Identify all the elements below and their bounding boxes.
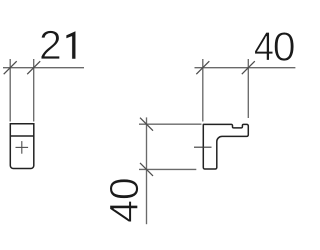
front view outline of hook plate [10, 124, 34, 169]
tick left [4, 61, 17, 74]
side view hook profile outline [203, 124, 248, 169]
svg-text:2: 2 [39, 22, 62, 68]
extension line left [9, 59, 11, 122]
tick right [27, 61, 40, 74]
extension line bottom [139, 168, 196, 170]
dimension line "40" vertical [146, 117, 148, 224]
dimension line "21" [3, 67, 84, 69]
dimension text 21 [39, 22, 76, 68]
tick bottom [140, 163, 153, 176]
svg-text:0: 0 [273, 23, 296, 69]
extension line right [247, 59, 249, 118]
tick left [196, 61, 209, 74]
extension line top [139, 123, 202, 125]
front view top band edge line [10, 135, 34, 137]
tick top [140, 118, 153, 131]
tick right [242, 61, 255, 74]
svg-text:40: 40 [101, 177, 147, 223]
extension line right [33, 59, 35, 122]
screw hole centerline dash (side view) [194, 146, 212, 148]
dimension line "40" top [195, 67, 296, 69]
screw hole center cross [16, 141, 29, 154]
dimension text 40 (top) [254, 23, 296, 70]
svg-text:4: 4 [254, 24, 274, 70]
extension line left [202, 59, 204, 122]
